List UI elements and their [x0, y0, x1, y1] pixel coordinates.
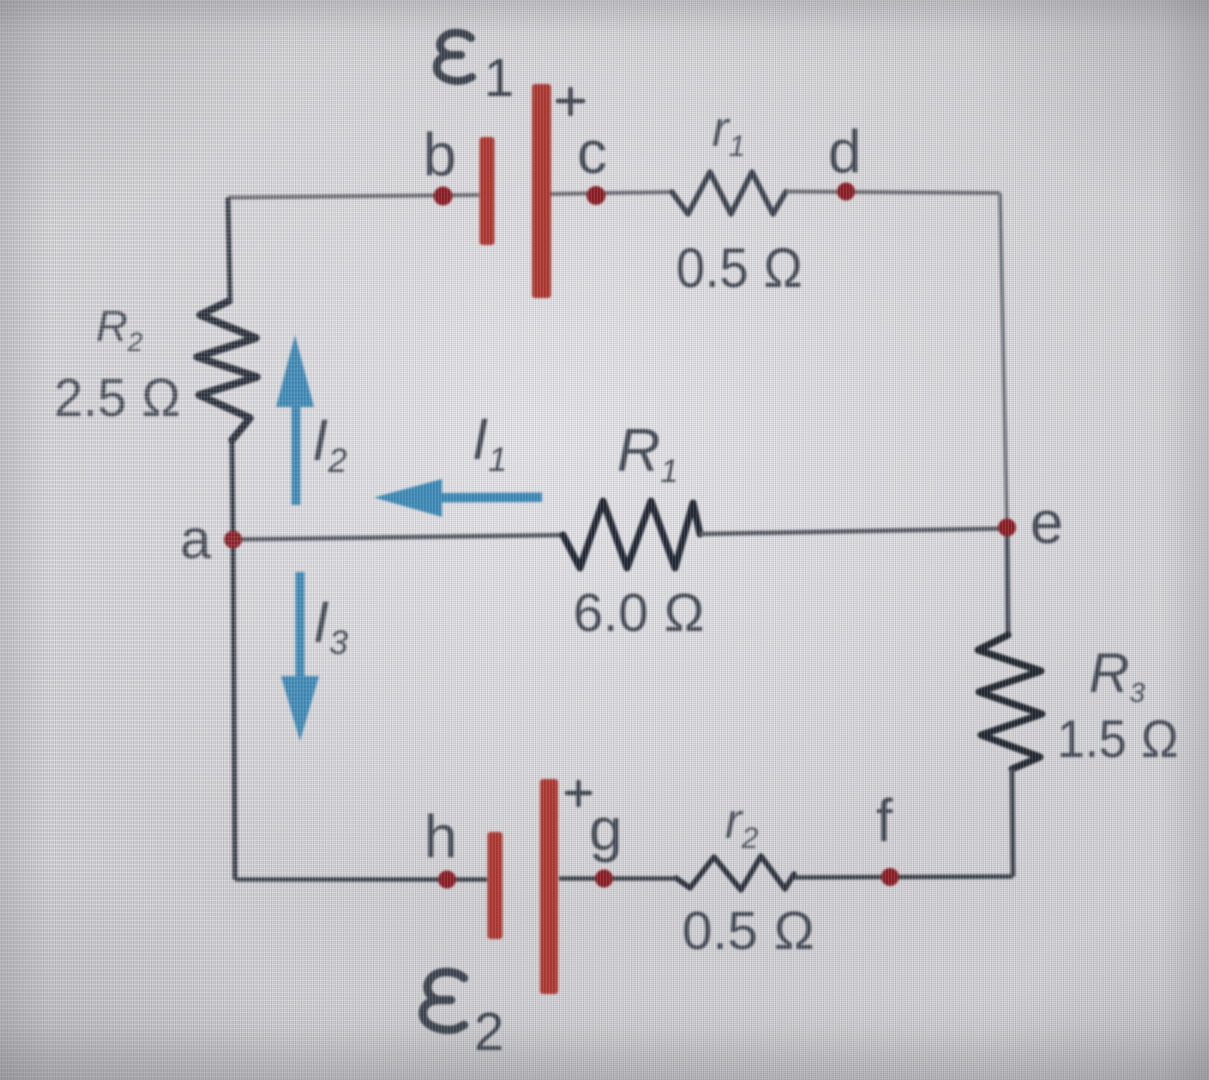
wire top: r1 to top-right corner	[786, 192, 1000, 194]
battery E1 negative plate	[480, 137, 495, 245]
battery E1 plus sign	[558, 89, 583, 114]
battery E2 plus sign	[567, 782, 590, 805]
wire left: bottom-left corner up to node a	[233, 540, 235, 880]
wire middle: R1 to node e	[700, 529, 1007, 535]
battery E2 positive plate	[540, 779, 558, 994]
label emf E2	[423, 972, 464, 1030]
battery E1 positive plate	[532, 84, 551, 298]
resistor r2 zigzag	[676, 856, 794, 890]
wire top: battery e1 positive plate to r1	[551, 192, 674, 194]
battery E2 negative plate	[488, 832, 503, 939]
current arrow I2 (up)	[276, 335, 314, 505]
resistor R1 zigzag	[563, 501, 700, 568]
node f	[881, 868, 899, 886]
node c	[587, 186, 606, 205]
wire right: R3 to bottom-right corner	[1012, 769, 1013, 877]
label emf E1	[437, 33, 472, 81]
node d	[837, 183, 855, 201]
wire bottom: battery e2 negative plate to bottom-left corner	[235, 877, 487, 882]
current arrow I3 (down)	[281, 572, 319, 741]
wire left: R2 up to top-left corner	[228, 198, 230, 302]
resistor R2 zigzag	[197, 301, 257, 440]
resistor r1 zigzag	[672, 172, 786, 214]
wire middle: node a to R1	[233, 535, 566, 540]
wire top: b to battery e1 negative plate	[228, 195, 479, 198]
node a	[224, 531, 242, 549]
wire right: node e down to R3	[1007, 528, 1008, 636]
wire right: top-right corner down to node e	[1000, 193, 1007, 528]
node e	[998, 519, 1016, 537]
wire left: node a up to R2	[232, 440, 233, 540]
wire bottom: bottom-right corner to r2	[794, 877, 1013, 878]
node b	[434, 187, 453, 206]
resistor R3 zigzag	[978, 635, 1042, 769]
node h	[438, 871, 456, 889]
node g	[595, 870, 613, 888]
wire bottom: r2 to battery e2 positive plate	[559, 876, 676, 881]
current arrow I1 (left)	[374, 479, 542, 517]
